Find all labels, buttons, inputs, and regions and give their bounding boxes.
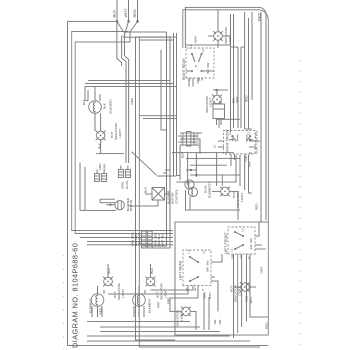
wire main rail A [136,37,177,340]
switch right front dual control [224,128,259,167]
svg-text:WHT: WHT [235,96,239,103]
wire RF box feeds [177,155,253,193]
wire left rear bottom feeds [204,293,209,330]
wire lamp2 leads [213,90,240,125]
wire lamp2 bottom lead [218,119,220,129]
svg-text:LIGHT: LIGHT [179,312,183,321]
svg-text:ORN: ORN [203,292,207,299]
svg-text:BLK: BLK [103,102,107,109]
wire lamp mid drop [220,101,222,125]
svg-text:WHT: WHT [208,292,212,299]
wire motor loop [80,163,116,211]
svg-text:GRN BLU: GRN BLU [180,133,184,145]
wire triple vertical feed [85,81,177,87]
switch left front [224,227,255,254]
motor blower [115,201,124,210]
svg-text:RED: RED [245,95,249,102]
lamp hot C [96,131,106,141]
wire ladder r4 [240,47,242,128]
wire cluster line 3 [80,237,173,239]
svg-text:BLK: BLK [180,151,184,158]
node BLK junction [116,20,119,23]
wire lamp C drop [96,153,124,155]
switch left rear [179,250,211,286]
wire ladder r3 [237,47,239,128]
lamp mid indicator [212,95,222,105]
svg-text:DIAGRAM NO. 8104P688-60: DIAGRAM NO. 8104P688-60 [71,243,80,348]
wire element A leads [98,264,109,317]
wire bottom bus 4 [87,335,230,337]
wire xbox1 leads [128,194,170,206]
svg-text:P: P [201,289,205,291]
svg-text:ELEMENTS: ELEMENTS [207,181,211,198]
labels cluster 2 [180,133,199,146]
svg-text:H2: H2 [239,254,243,258]
svg-text:LEFT FRONT: LEFT FRONT [224,232,228,254]
wire r115 pair [140,116,176,119]
wire BLK supply lead [116,0,118,21]
svg-text:YEL WHT: YEL WHT [137,233,141,246]
wire WHT supply lead [128,0,130,21]
node WHT junction [127,20,130,23]
svg-text:ELEMENT: ELEMENT [148,298,152,313]
lamp hot indicator left rear feed [181,307,191,317]
wire L1 corner run [68,21,269,345]
dual elements [185,180,194,189]
svg-text:L1: L1 [230,248,234,252]
wire bundle rail 2 [152,36,170,248]
wire bundle joins [157,170,180,176]
wire rail161 [161,50,167,130]
wire L2 corner run [75,21,173,233]
wire mid connect runs [172,153,240,186]
svg-text:CONTROL: CONTROL [175,189,179,204]
svg-text:ORN: ORN [259,267,263,274]
svg-text:L1: L1 [213,144,217,148]
svg-text:BLK: BLK [144,186,148,193]
wire N corner run [72,32,173,231]
wire top stubs elemC [85,87,88,101]
wire element B leads [139,264,151,317]
element B [133,294,146,307]
wire bottom bus 2 [100,326,200,328]
svg-text:RIGHT REAR: RIGHT REAR [182,58,186,80]
svg-text:GRN: GRN [194,36,198,43]
svg-text:BLK: BLK [112,10,117,18]
wire elem C to lamp C [95,87,101,154]
wire element stubs to buses [92,306,144,317]
svg-text:RED: RED [265,322,269,329]
svg-text:L2: L2 [202,250,206,254]
wire ladder r252 [251,12,253,100]
connector cluster 2 [180,133,197,145]
wire bundle rail 1 [141,32,167,246]
svg-text:MOTOR: MOTOR [129,199,133,211]
element A [91,294,104,307]
svg-text:P: P [194,65,198,67]
svg-text:LIGHT: LIGHT [118,129,122,138]
wire ladder r5 [244,12,246,129]
wire top border inner [185,7,266,220]
wire ladder r2 [233,14,235,128]
wire left front feeds [234,254,269,338]
svg-text:H2: H2 [193,287,197,291]
svg-text:LIGHT: LIGHT [121,289,125,298]
labels cluster 1 lower [153,233,164,246]
svg-text:INF. SW.: INF. SW. [206,62,210,74]
wire L1 connector row [186,44,231,46]
wire ladder r1 [230,14,232,128]
wire lampRF leads [212,191,238,220]
box under mid lamp [213,104,225,119]
wire lampLF leads [234,286,256,288]
wire bundle rail 3 [157,33,174,176]
wire elem C col [85,100,88,102]
wire dual elements local [185,170,240,210]
lamp hot B [146,277,156,287]
svg-text:PLUG: PLUG [125,180,129,189]
xbox 1 [152,188,165,201]
plug 1 [95,170,107,182]
wire bottom bus 1 [87,321,190,323]
svg-text:LIGHT: LIGHT [209,98,213,107]
wire cluster line 5 [87,244,173,246]
wire diag [132,152,157,176]
svg-text:YEL: YEL [218,319,222,325]
wire BLK diagonal feed [117,21,167,32]
wire bottom bus 5 [87,340,250,342]
wire cluster line 4 [87,241,173,243]
lamp right rear indicator [213,31,223,41]
svg-text:LIGHT: LIGHT [240,193,244,202]
labels cluster 1 upper [130,233,141,246]
svg-text:L2: L2 [241,228,245,232]
svg-text:PRP: PRP [157,302,161,308]
svg-text:WHT YEL: WHT YEL [160,233,164,246]
wire bundle rail 4 [176,33,178,176]
wire cluster2 drops [178,133,202,180]
lamp hot A [103,277,113,287]
connector cluster 1 [142,231,153,248]
lamp hot indicator left front [240,282,250,292]
svg-text:DUAL CONTROL: DUAL CONTROL [255,130,259,154]
wire misc right [231,47,253,129]
wire BLK drop run [117,21,122,66]
wire left front drop [255,222,266,249]
wire main rail B [139,37,260,347]
wire right rear box stubs [189,78,202,87]
svg-text:L2: L2 [201,49,205,53]
wire bottom bus 3 [100,331,220,333]
wire WHT diagonal feed [124,21,170,37]
wire RED jog feed [122,36,126,164]
svg-text:L1: L1 [189,45,193,49]
svg-text:L2: L2 [246,131,250,135]
wire jog feed 2 [125,34,129,164]
scan artifact dotted column left [63,255,65,350]
svg-text:GRN: GRN [102,164,106,171]
svg-text:INF. SW.: INF. SW. [249,237,253,249]
scan artifact dotted column [300,60,302,350]
node RED junction [136,20,139,23]
svg-text:INF. SW.: INF. SW. [206,260,210,272]
lamp hot indicator right front [220,187,230,197]
svg-text:WHT: WHT [123,8,128,18]
switch right rear [182,45,214,81]
wire left rear drop [211,254,222,311]
element C [89,101,102,114]
svg-text:ELEMENT: ELEMENT [109,99,113,114]
svg-text:RED: RED [255,203,259,210]
wire ladder r261 [260,12,262,222]
wire ladder r6 [248,18,250,129]
svg-text:H1: H1 [188,77,192,81]
svg-text:YEL: YEL [213,319,217,325]
svg-text:RED: RED [130,97,134,104]
wire left rear feeds [108,286,198,312]
wire RED supply lead [137,0,139,21]
wire lamp1 leads [208,10,231,48]
svg-text:L1: L1 [187,250,191,254]
wire lampLR2 leads [175,311,196,330]
wire right front feeds vertical [218,128,260,153]
svg-text:LEFT REAR: LEFT REAR [179,260,183,280]
plug 2 [118,166,130,178]
svg-text:RED: RED [132,9,137,18]
wire top border outer [175,10,268,335]
